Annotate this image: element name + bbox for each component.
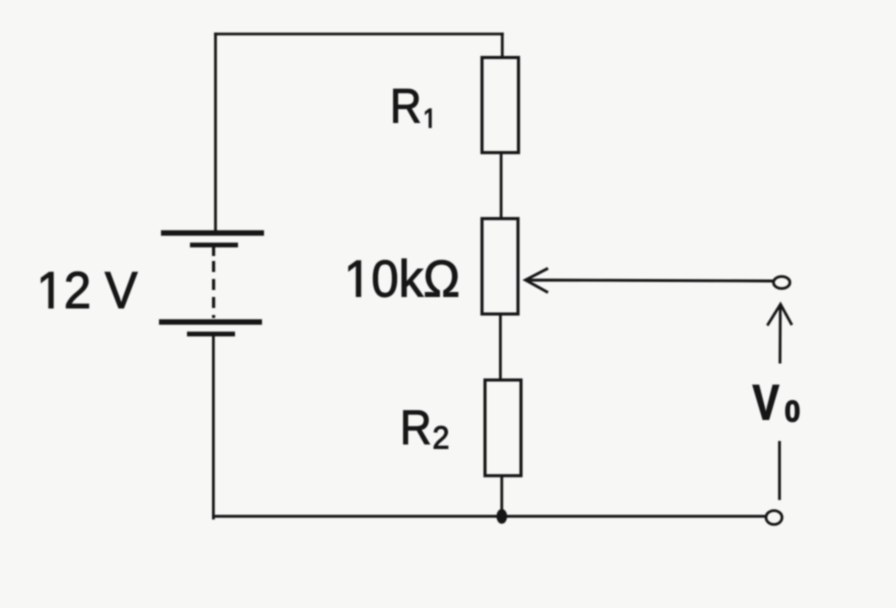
terminal bottom-right <box>766 511 782 525</box>
arrow V0 up <box>767 304 792 363</box>
battery BT1 negative long plate <box>159 319 262 324</box>
wire battery bottom vertical <box>212 336 215 520</box>
label 12 V <box>41 272 137 308</box>
wire top horizontal <box>214 33 504 36</box>
potentiometer wiper arrow <box>526 268 774 292</box>
wire battery top vertical <box>214 33 217 232</box>
battery dashed cells line <box>212 261 215 318</box>
battery BT1 negative short plate <box>187 332 235 337</box>
label 10k ohm <box>349 259 458 297</box>
label R2 <box>404 411 430 444</box>
battery BT1 positive short plate <box>190 243 238 248</box>
wire top corner down to R1 <box>501 33 504 58</box>
potentiometer 10k body <box>482 219 518 314</box>
label R2 subscript <box>434 426 448 448</box>
wire bottom horizontal <box>212 515 766 518</box>
wire R1 to potentiometer <box>500 153 503 219</box>
battery BT1 positive long plate <box>161 230 264 235</box>
wire potentiometer to R2 <box>499 314 502 380</box>
resistor R2 <box>485 380 521 476</box>
label R1 subscript <box>425 109 431 128</box>
junction node <box>497 509 508 524</box>
V0 lower lead line <box>778 441 781 500</box>
resistor R1 <box>482 58 519 153</box>
label V0 <box>753 385 779 419</box>
terminal top-right <box>774 277 790 289</box>
wire R2 to bottom node <box>500 476 503 514</box>
label R1 <box>394 89 420 122</box>
battery internal stub wire <box>212 247 215 256</box>
label V0 subscript <box>786 401 800 422</box>
